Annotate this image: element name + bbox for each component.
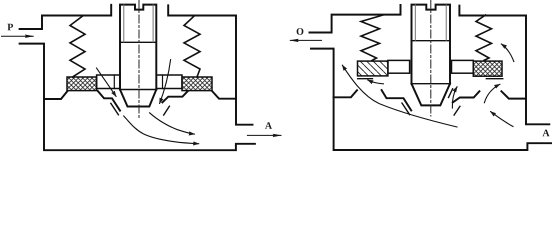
valve 1 nozzle taper and tip [120, 90, 156, 107]
valve 1 stem outer walls with top notch [120, 5, 156, 90]
valve 1 right spring [184, 16, 200, 77]
valve 1 seat right of nozzle: lip foot, shelf, tooth face [162, 91, 188, 102]
valve 1 right seal block (crosshatched) [182, 77, 212, 91]
valve 1 outlet lower lip, bottom wall, left wall, P lower wall [20, 44, 255, 151]
valve 2 left spring (compressed) [361, 15, 383, 60]
valve 2 left plate [388, 60, 410, 73]
valve 2 stem upper sleeve bottom line [412, 40, 451, 42]
valve 2 left upper seat ring edge [358, 78, 373, 80]
valve 2 right near-nozzle mark [449, 89, 453, 98]
valve 1 P flow arrow [2, 35, 34, 37]
valve 1 right plate between stem and seal [156, 75, 182, 89]
valve 2 right seat to wall [501, 91, 526, 98]
valve 1 stem centerline [138, 0, 140, 118]
valve 1 flow curve nozzle to outlet (upper) [150, 113, 195, 134]
valve 2 stem inner sleeve walls [415, 5, 446, 41]
valve 2 stem outer walls with top notch [412, 5, 451, 84]
valve 2 O flow arrow pointing out left [290, 39, 321, 41]
valve 1 A flow arrow [247, 134, 281, 136]
port label O [297, 28, 304, 35]
valve 1 right plate divider [162, 75, 164, 89]
valve 2 flow arrow up through right seat gap [484, 84, 499, 102]
valve 2 flow arrow up past nozzle right lip [452, 87, 457, 108]
valve 2 seat tooth right face and left lip near nozzle [382, 90, 412, 110]
valve 2 left seal block (diagonal hatch), raised [358, 61, 388, 76]
valve 1 flow arrow left chamber down to seat gap [97, 68, 117, 96]
valve 1 right lower lip mark [164, 106, 170, 115]
valve 1 left spring [70, 16, 85, 77]
valve 1 left seat shelf [44, 91, 67, 99]
valve 2 main exhaust flow curve A to O [342, 65, 457, 127]
valve 1 left lower lip mark [111, 103, 119, 115]
valve 2 left seat shelf [334, 90, 357, 97]
valve 2 right seal block (crosshatched), raised [473, 61, 502, 76]
valve 2 nozzle shoulder [412, 83, 451, 85]
valve 1 stem upper sleeve bottom line [120, 41, 156, 43]
port label P [7, 24, 13, 31]
valve 2 flow arrow from A port up-left [491, 112, 513, 127]
valve 2 nozzle taper and tip [412, 84, 451, 106]
valve 1 right seat to wall [212, 91, 236, 99]
valve 2 A port lower lip, bottom wall, left wall, O lower wall [311, 49, 552, 150]
port label A of valve 2 [542, 130, 549, 137]
valve 2 right upper seat ring edge [486, 78, 503, 80]
valve 2 right spring (compressed) [476, 15, 492, 60]
valve 2 right plate [452, 60, 474, 73]
valve 1 body top-right, right wall down to outlet A [168, 5, 252, 124]
valve 2 flow arrow under raised seal turning left [368, 80, 384, 84]
valve 1 flow curve nozzle to outlet (lower) [124, 116, 199, 144]
valve 1 body outline with P inlet, top wall and ticks [20, 5, 112, 29]
valve 2 left lower lip mark [402, 103, 410, 115]
valve 1 seat tooth right face and lip left of nozzle [98, 91, 120, 111]
valve 2 stem centerline [430, 0, 432, 116]
valve 1 stem inner sleeve walls [124, 5, 153, 43]
valve 1 nozzle shoulder [120, 89, 156, 91]
valve 1 left plate between seal and stem [97, 75, 120, 89]
valve 2 right lower lip mark [454, 106, 460, 115]
valve 2 flow arrow upper right chamber [501, 44, 513, 62]
valve 2 seat right of nozzle: lip foot, shelf, tooth face [453, 91, 480, 102]
valve 2 body top-right tick, top wall, right wall to A port [459, 6, 549, 125]
port label A of valve 1 [265, 122, 272, 129]
valve 1 flow arrow right chamber down to seat gap [160, 60, 171, 104]
valve 2 body outline with O port, top wall and tick [310, 5, 401, 33]
valve 1 left plate divider [113, 75, 115, 89]
valve 1 left seal block (crosshatched) [67, 77, 97, 91]
